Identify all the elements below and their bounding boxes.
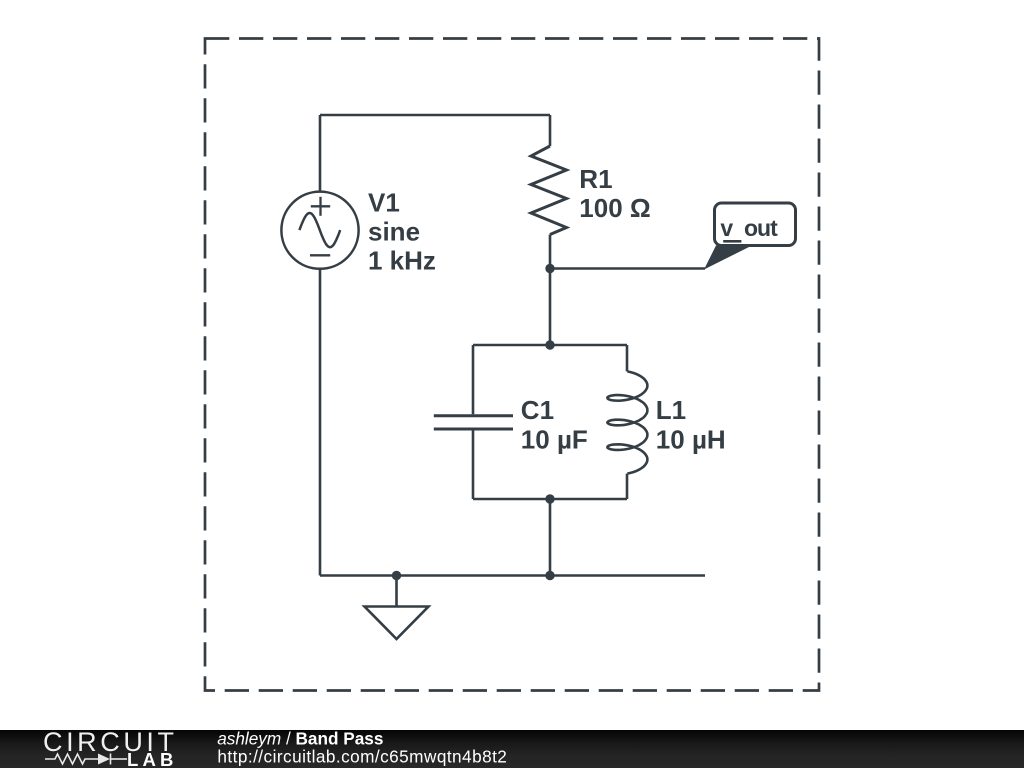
svg-text:R1: R1 [579, 164, 612, 194]
ground stem wire [395, 576, 398, 607]
inductor L1 [607, 371, 647, 473]
capacitor C1 [434, 416, 513, 429]
svg-text:C1: C1 [521, 395, 554, 425]
wire R1 top lead [549, 115, 552, 146]
svg-text:v_out: v_out [720, 215, 778, 241]
voltage source V1 circle [281, 192, 358, 269]
wire LC bottom rail [473, 498, 627, 501]
wire V1 bottom lead [319, 269, 322, 576]
ground symbol [365, 607, 429, 640]
svg-text:http://circuitlab.com/c65mwqtn: http://circuitlab.com/c65mwqtn4b8t2 [217, 747, 507, 767]
V1 plus sign [311, 197, 330, 216]
svg-text:1 kHz: 1 kHz [368, 246, 436, 276]
wire C1 bottom lead [472, 431, 475, 500]
wire C1 top lead [472, 345, 475, 414]
wire LC top rail [473, 344, 627, 347]
node dot below R1 [545, 264, 554, 273]
svg-text:10 µF: 10 µF [521, 425, 588, 455]
svg-text:sine: sine [368, 216, 420, 246]
V1 minus sign [310, 254, 330, 256]
wire node to LC top [549, 269, 552, 346]
svg-text:L1: L1 [656, 395, 686, 425]
wire L1 bottom lead [626, 474, 629, 499]
v_out flag bubble [715, 203, 796, 246]
svg-text:100 Ω: 100 Ω [579, 193, 650, 223]
v_out flag tail [704, 246, 752, 270]
wire L1 top lead [626, 345, 629, 371]
footer bar [0, 730, 1024, 768]
node dot LC bottom [545, 494, 554, 503]
svg-text:LAB: LAB [127, 749, 178, 768]
node dot LC top [545, 340, 554, 349]
CircuitLab logo resistor squiggle [45, 754, 127, 765]
CircuitLab logo diode [98, 754, 110, 765]
resistor R1 [531, 146, 567, 235]
wire node to v_out [550, 267, 705, 270]
V1 sine symbol [299, 213, 340, 247]
wire V1 top lead [319, 115, 322, 192]
wire R1 bottom lead [549, 235, 552, 269]
node dot ground junction [392, 571, 401, 580]
schematic dashed border [205, 39, 819, 691]
svg-text:V1: V1 [368, 188, 400, 218]
node dot bottom rail [545, 571, 554, 580]
wire bottom rail [320, 574, 705, 577]
wire top rail [320, 114, 550, 117]
wire LC bottom to ground rail [549, 499, 552, 576]
svg-text:10 µH: 10 µH [656, 425, 726, 455]
